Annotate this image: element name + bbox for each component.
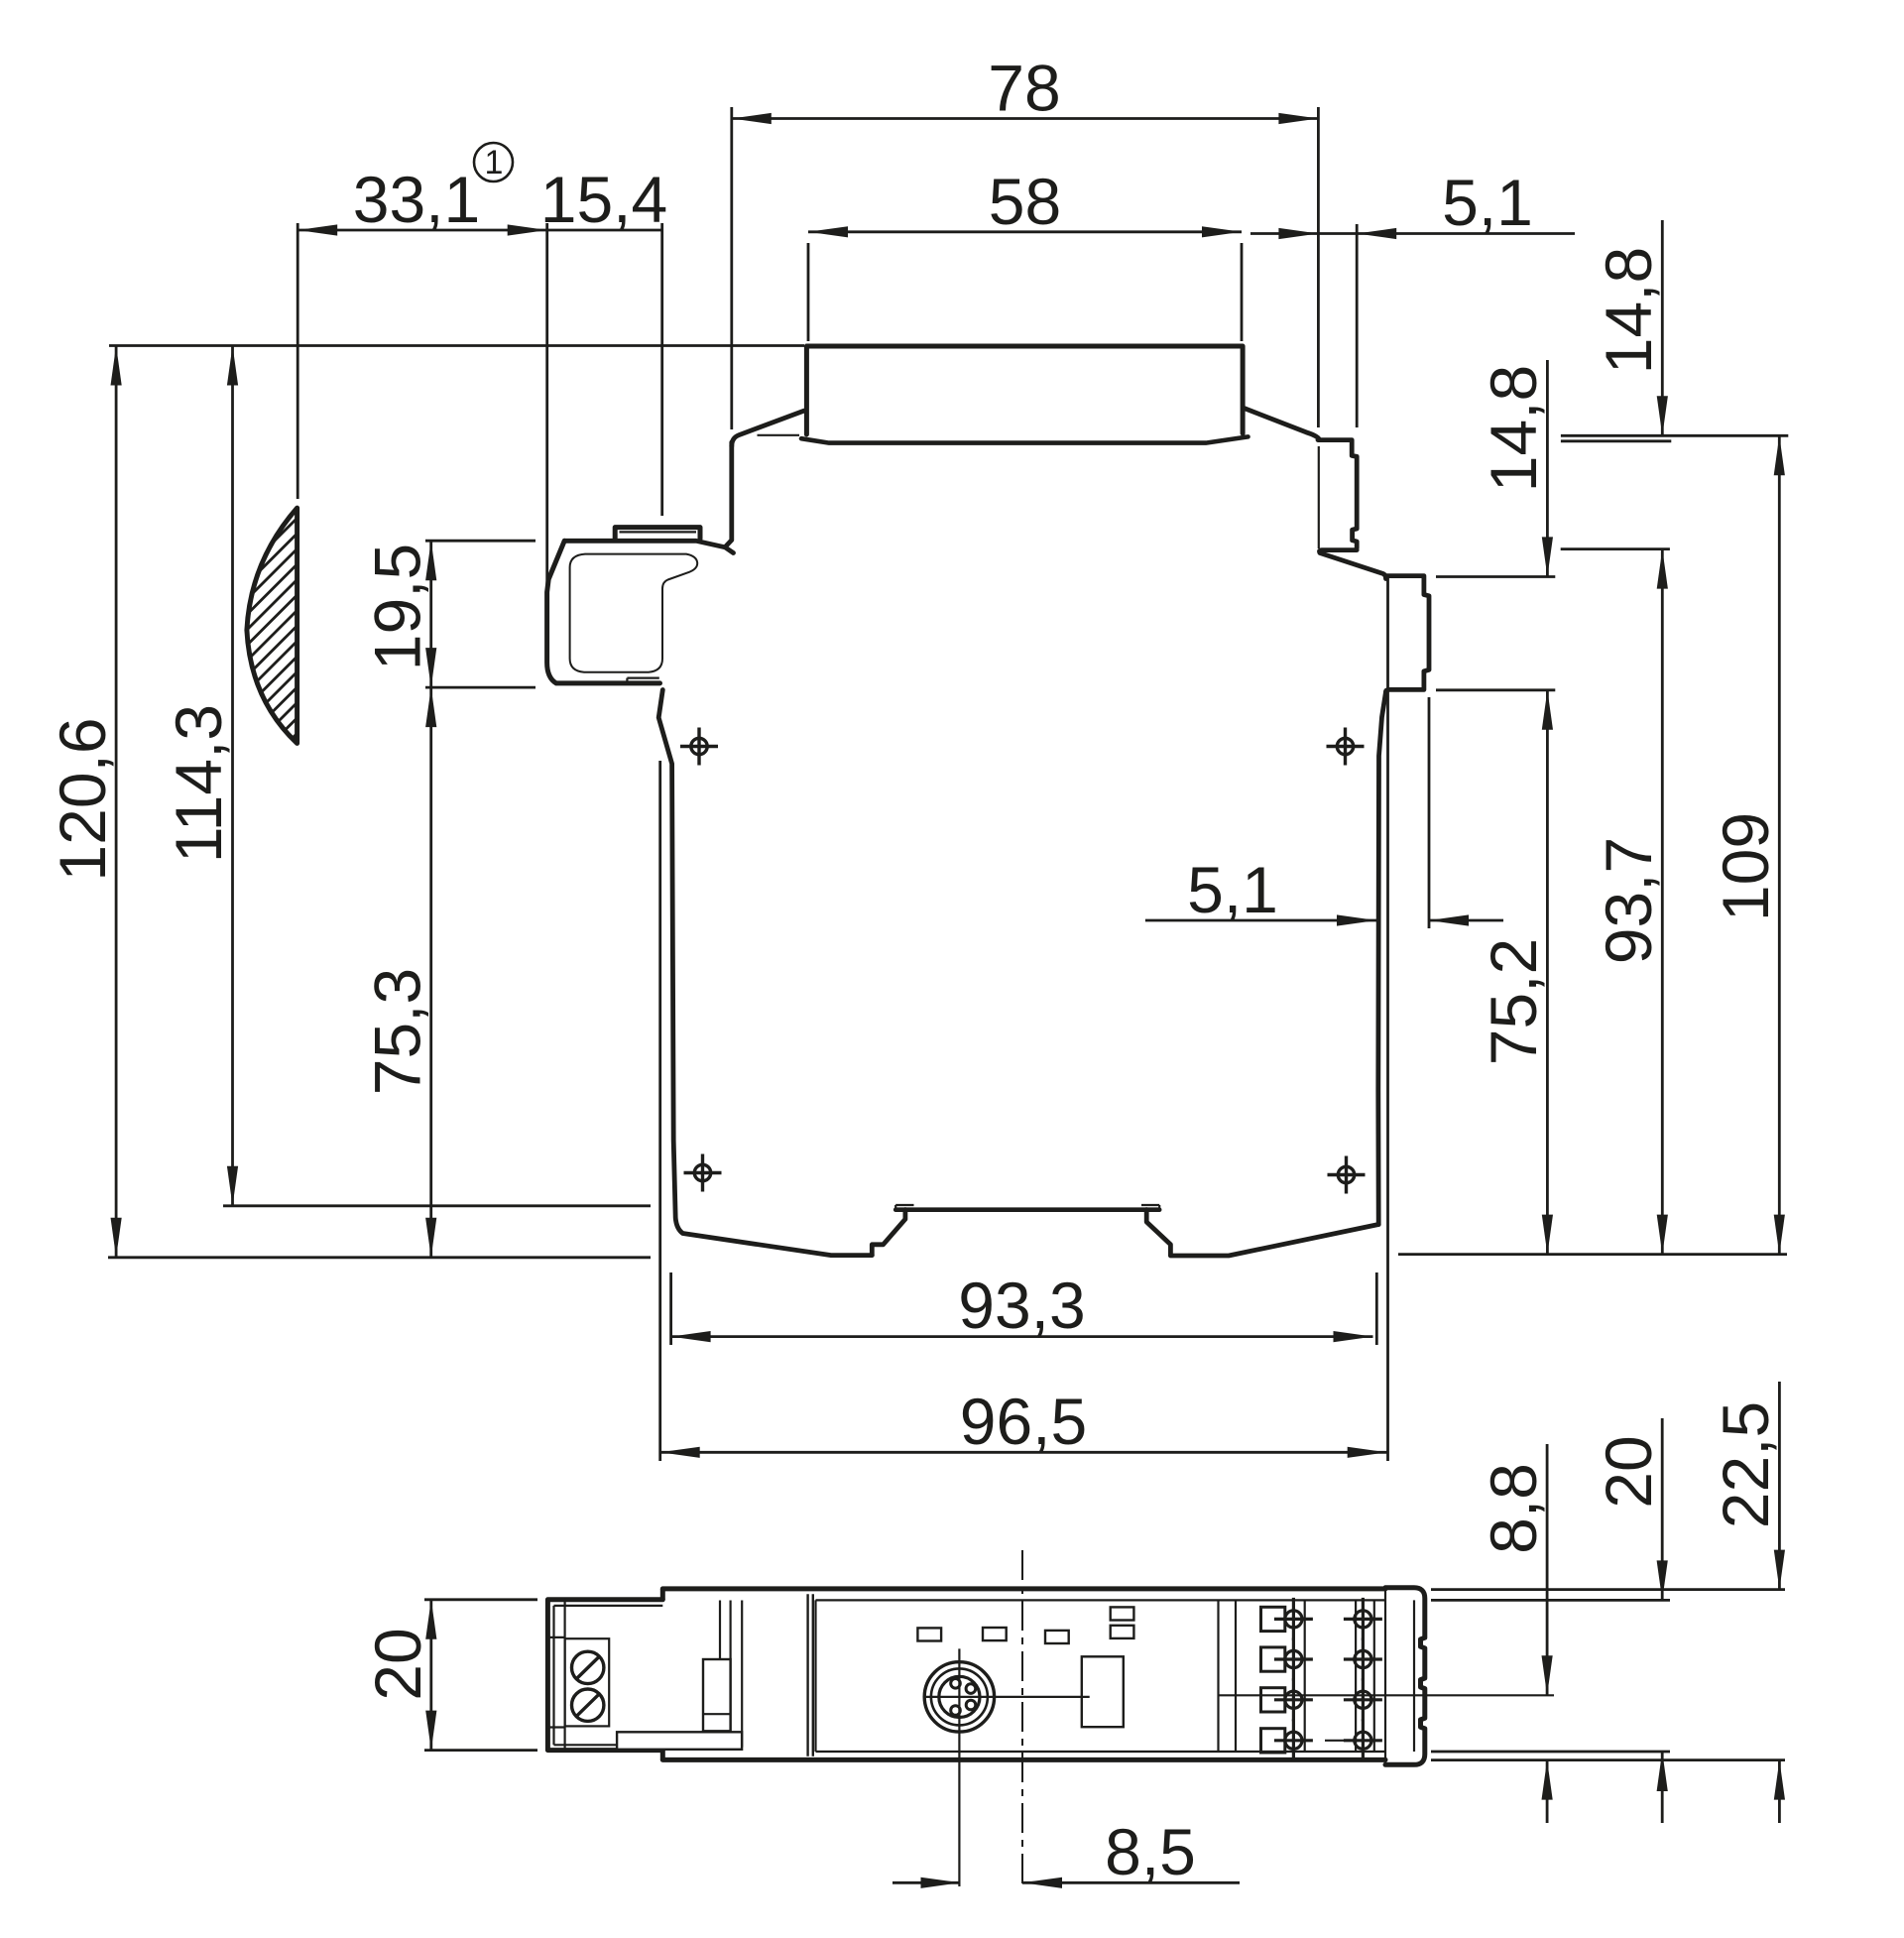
DIP switch rect [1082,1656,1124,1727]
dim 93,3 [671,1335,1373,1338]
latch rect [703,1659,731,1731]
svg-text:22,5: 22,5 [1709,1401,1782,1528]
dim 75,3 [429,687,432,1258]
svg-text:93,7: 93,7 [1592,837,1665,964]
svg-text:19,5: 19,5 [361,544,434,670]
body left edge upper [725,442,732,547]
svg-text:75,2: 75,2 [1477,938,1550,1065]
main section inner lines [816,1599,1386,1601]
svg-text:20: 20 [361,1628,434,1700]
dim 5,1 top right (outside arrows) [1250,232,1318,235]
svg-text:93,3: 93,3 [958,1269,1085,1342]
dim 20 right [1661,1418,1664,1600]
clip outer edge [547,541,660,683]
dim 96,5 [660,1451,1387,1454]
reference + extension lines [109,344,804,347]
M8 connector [924,1662,994,1732]
svg-text:78: 78 [988,52,1060,125]
inner line top-left [758,434,800,436]
dim 75,2 [1546,690,1549,1255]
svg-text:33,1: 33,1 [353,163,480,236]
tab2 (right lower tab) [1386,576,1430,692]
svg-text:14,8: 14,8 [1477,365,1550,492]
dim 33,1 + circled 1 [297,229,547,232]
bottom view dimension: 20 left [424,1598,537,1601]
dim 5,1 middle (outside arrows) [1145,919,1376,922]
dim 15,4 [547,229,662,232]
LED windows [917,1628,941,1640]
DIN-rail cutout [872,1210,905,1256]
dim 19,5 [429,541,432,687]
dim 14,8 second [1546,360,1549,576]
cutout hooks [894,1205,896,1210]
body top face right + tab1 [1318,440,1357,548]
dim 109 [1778,435,1781,1254]
body bottom right foot [1170,1225,1378,1257]
bottom view outer outline [662,1586,1385,1591]
left (terminal) section outline [547,1600,662,1751]
svg-text:15,4: 15,4 [540,163,667,236]
bottom wire bar [617,1732,742,1750]
screw 2 [572,1689,604,1721]
svg-text:8,8: 8,8 [1477,1463,1550,1554]
device centerline (dash-dot) [1021,1550,1023,1886]
tab1 bottom [1320,550,1386,579]
DIN clip small top tab [615,528,700,540]
dim 22,5 [1778,1382,1781,1590]
top cap outline [806,346,1243,434]
connector centerlines [925,1696,1089,1698]
dim 8,8 [1546,1444,1549,1695]
flap hinge verticals [719,1601,721,1748]
screw terminal block [565,1638,610,1726]
svg-text:5,1: 5,1 [1442,166,1533,239]
svg-text:14,8: 14,8 [1592,247,1665,374]
right ticks [1431,1588,1785,1591]
svg-text:114,3: 114,3 [162,704,235,863]
body left edge lower [658,690,872,1256]
right end cap [1385,1588,1425,1765]
svg-text:58: 58 [989,165,1061,238]
right terminal block [1217,1600,1219,1752]
dim 114,3 [231,346,234,1206]
svg-text:96,5: 96,5 [960,1385,1087,1458]
clip bottom step detail [627,676,658,678]
tab1 inner thin edge [1318,446,1320,548]
hinge double line [806,1594,808,1756]
mounting hole mark [1328,1156,1366,1194]
cap bottom edge [801,436,1249,442]
svg-text:20: 20 [1592,1435,1665,1508]
left section inner inset [554,1605,663,1607]
svg-text:8,5: 8,5 [1105,1815,1196,1888]
svg-text:109: 109 [1709,812,1782,921]
body top-right shoulder [1245,409,1319,440]
left section dividers [547,1636,564,1638]
svg-text:75,3: 75,3 [361,968,434,1095]
body top-left shoulder [732,411,804,446]
screw 1 [572,1651,604,1683]
clip top edge [564,541,733,552]
dim 19,5 ticks [425,540,535,543]
svg-text:1: 1 [485,144,504,182]
svg-text:5,1: 5,1 [1187,853,1278,926]
dim 58 [808,230,1242,233]
svg-text:120,6: 120,6 [46,717,119,881]
mounting hole mark [684,1154,722,1192]
dim 93,7 [1661,549,1664,1255]
dim 14,8 first (right upper) [1661,220,1664,435]
dim 120,6 [115,346,118,1258]
mounting hole mark [680,728,718,766]
dim 8,5 (outside arrows) [892,1881,961,1884]
dim 78 [732,117,1319,120]
body right edge lower [1378,692,1386,1225]
clip inner rounded square [570,554,698,672]
mounting hole mark [1327,728,1365,766]
